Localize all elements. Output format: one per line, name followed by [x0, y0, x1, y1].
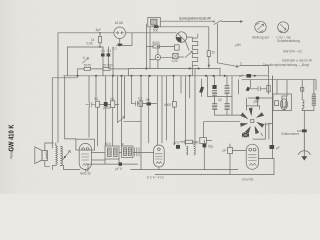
capacitor dark C7 — [147, 102, 152, 105]
connector box right — [273, 94, 291, 111]
IF can 2 — [122, 142, 134, 158]
choke hatched right edge — [312, 94, 316, 106]
resistor R11 — [267, 85, 270, 92]
svg-text:Druckknopfumschaltung – „Burg“: Druckknopfumschaltung – „Burg“ — [263, 63, 310, 67]
svg-text:0,05: 0,05 — [172, 59, 178, 63]
IF can 1 — [105, 142, 120, 159]
autotransformer T1 circle — [176, 32, 187, 43]
svg-text:46,5: 46,5 — [105, 142, 111, 146]
entbrummer wiper blob — [302, 129, 307, 132]
svg-text:5000: 5000 — [152, 41, 159, 45]
lamp La1 — [114, 27, 126, 39]
wire vertical x64.7 to tube shield — [65, 76, 76, 139]
switch lever mains — [213, 20, 222, 24]
resistor R3 70000 — [110, 68, 129, 70]
bus lower y75.8 — [64, 75, 269, 77]
wire row connect — [100, 104, 119, 106]
svg-text:2: 2 — [240, 62, 242, 66]
svg-text:μμ: μμ — [218, 98, 222, 102]
wires around starburst — [253, 76, 273, 145]
wire y46.5 — [146, 46, 174, 48]
coil L right — [302, 100, 304, 111]
wire stub x128 — [128, 69, 130, 76]
svg-text:μF?: μF? — [193, 142, 199, 146]
capacitor C18 plates — [250, 86, 267, 90]
voltage selector box — [148, 17, 161, 26]
capacitor box X — [173, 54, 178, 59]
wire horizontal y78 left — [52, 77, 77, 79]
switch lever 2 — [217, 63, 238, 68]
socket pin box — [275, 101, 279, 106]
svg-text:GW 410 K: GW 410 K — [6, 124, 15, 152]
coil 500 — [154, 25, 159, 28]
wire bottom bus 1 — [131, 169, 238, 171]
wire right lower y79.7 — [242, 80, 316, 90]
wire tube leads — [185, 37, 192, 50]
capacitor dark C6 — [104, 102, 108, 106]
resistor R9 right — [282, 96, 286, 107]
capacitor dark C8 — [212, 85, 216, 89]
capacitor C13 plates — [132, 101, 140, 106]
tap arrow on zigzag — [185, 51, 193, 57]
resistor R8 — [173, 102, 177, 108]
tube V1 shield box — [76, 139, 95, 150]
trimmer arrow 2 — [118, 117, 125, 123]
junction dots bus — [77, 32, 256, 77]
wire grid feed left — [204, 122, 240, 138]
wire bottom row links — [92, 153, 154, 160]
bottom components row: capacitor dark C15 — [176, 145, 180, 149]
wire top mains horizontal — [58, 32, 176, 34]
svg-text:0,1: 0,1 — [110, 97, 115, 101]
capacitor on bus dark — [247, 74, 252, 78]
wires upper-right joins — [220, 66, 314, 151]
wire lamp bypass loop — [117, 33, 133, 46]
coil L2 — [186, 146, 188, 155]
capacitor dark top right of V3 — [270, 145, 275, 149]
wire mains arrow right — [222, 21, 243, 23]
resistor small right top — [301, 87, 304, 91]
wire merge right columns — [302, 106, 314, 130]
resistor box R6 — [111, 101, 115, 108]
svg-text:4μF: 4μF — [96, 28, 102, 32]
svg-text:Spannungswähler am Sp. 110–24: Spannungswähler am Sp. 110–240 — [179, 17, 211, 21]
svg-text:Stellung auf: Stellung auf — [252, 36, 269, 40]
component row mid-left: capacitor C5 — [86, 102, 96, 106]
wire y121.3 — [124, 120, 141, 122]
svg-text:50: 50 — [146, 98, 150, 102]
resistor box R5 — [96, 101, 100, 107]
capacitor C3 dark — [107, 53, 111, 56]
wire filter row — [208, 76, 232, 104]
wire vertical x217 — [216, 24, 218, 63]
svg-text:0,05: 0,05 — [87, 42, 93, 46]
electrolytic cap plates C11 — [212, 104, 217, 110]
resistor R4 — [153, 45, 160, 48]
coil L3 — [194, 146, 196, 155]
electrolytic cap plates C9 — [212, 91, 216, 96]
pot arrow near transformer — [62, 151, 70, 161]
speaker LS — [35, 143, 54, 166]
tube V2 — [154, 145, 165, 170]
diode slant blob above starburst — [246, 87, 250, 91]
svg-text:4000: 4000 — [164, 103, 171, 107]
wire stub x77 — [77, 69, 79, 76]
electrolytic diode blob — [199, 86, 204, 92]
svg-text:.01: .01 — [107, 49, 112, 53]
wire left main vertical — [57, 33, 59, 143]
output transformer T2 — [52, 143, 63, 170]
svg-text:φ: φ — [122, 142, 124, 146]
wire links bottom right — [252, 149, 274, 170]
verticals mid-left — [89, 76, 125, 146]
wire selector drop — [146, 24, 150, 69]
title text Nora GW 410 K — [6, 124, 15, 159]
verticals mid-right — [141, 66, 208, 170]
svg-text:70 000: 70 000 — [103, 64, 113, 68]
resistor R10 horizontal — [185, 140, 193, 143]
rotary switch symbol 2 — [278, 22, 289, 33]
tube V1 output — [79, 143, 91, 171]
resistor R2 5075 — [78, 68, 103, 70]
lamp small circle — [155, 55, 161, 61]
capacitor box C14 — [139, 101, 143, 107]
wires above starburst — [246, 98, 272, 110]
svg-text:μ500: μ500 — [103, 106, 110, 110]
svg-text:μF: μF — [240, 74, 244, 78]
svg-text:18 A8: 18 A8 — [115, 21, 123, 25]
svg-text:GW 204 – 02: GW 204 – 02 — [283, 49, 302, 53]
svg-text:Netz an: Netz an — [80, 171, 91, 175]
switch contact under lamp — [118, 44, 123, 46]
svg-text:μF§: μF§ — [174, 141, 180, 145]
svg-text:500: 500 — [153, 28, 159, 32]
wire vertical x67 — [66, 47, 68, 76]
resistor R12 on mains drop — [207, 51, 210, 57]
capacitor dark on wire — [119, 162, 122, 165]
wire mains pair — [160, 21, 214, 68]
wire verticals mid-left — [103, 47, 113, 76]
electrolytic cap plates C12 — [225, 104, 230, 110]
wire bottom y164 — [87, 159, 138, 171]
svg-text:ECH 411: ECH 411 — [147, 176, 164, 180]
resistor box small — [175, 45, 180, 50]
wire bottom bus 2 — [155, 76, 274, 175]
wire branch y47 — [67, 46, 103, 48]
svg-text:Gedruckt u. die im W.: Gedruckt u. die im W. — [282, 58, 313, 62]
svg-text:5075: 5075 — [84, 64, 91, 68]
svg-text:UCH 411: UCH 411 — [242, 177, 254, 181]
bus upper y68.5 — [129, 68, 221, 70]
output tube V3 starburst — [215, 108, 273, 136]
svg-text:μ50: μ50 — [236, 43, 242, 47]
capacitor dark C16 — [203, 144, 207, 148]
resistor R1 1k — [99, 33, 101, 47]
rotary switch symbol 1 — [255, 21, 266, 32]
capacitor dark C19 — [256, 97, 259, 100]
capacitor trio — [135, 148, 140, 157]
heater dropping resistor zigzag — [192, 34, 198, 66]
svg-text:50μ: 50μ — [208, 145, 214, 149]
svg-text:Entbrummer: Entbrummer — [282, 132, 300, 136]
electrolytic cap plates C10 — [225, 86, 229, 94]
trimmer arrow w — [82, 58, 88, 64]
svg-text:μ50: μ50 — [254, 99, 260, 103]
capacitor dark under tube — [242, 133, 249, 137]
resistor R13 — [200, 138, 207, 144]
earth anchor symbol — [298, 132, 310, 160]
wire small row — [150, 47, 184, 69]
svg-text:μF: μF — [276, 146, 280, 150]
svg-text:μF: μF — [223, 149, 227, 153]
socket ellipse — [281, 99, 288, 110]
svg-text:0,1: 0,1 — [138, 97, 143, 101]
svg-text:Schalterstellung: Schalterstellung — [277, 39, 300, 43]
svg-text:μF 5: μF 5 — [116, 167, 123, 171]
capacitor C2 dark — [101, 53, 105, 56]
tube V3 bottom right — [246, 144, 258, 169]
capacitor box C17 — [228, 148, 233, 154]
wire vertical x52 — [51, 78, 53, 148]
